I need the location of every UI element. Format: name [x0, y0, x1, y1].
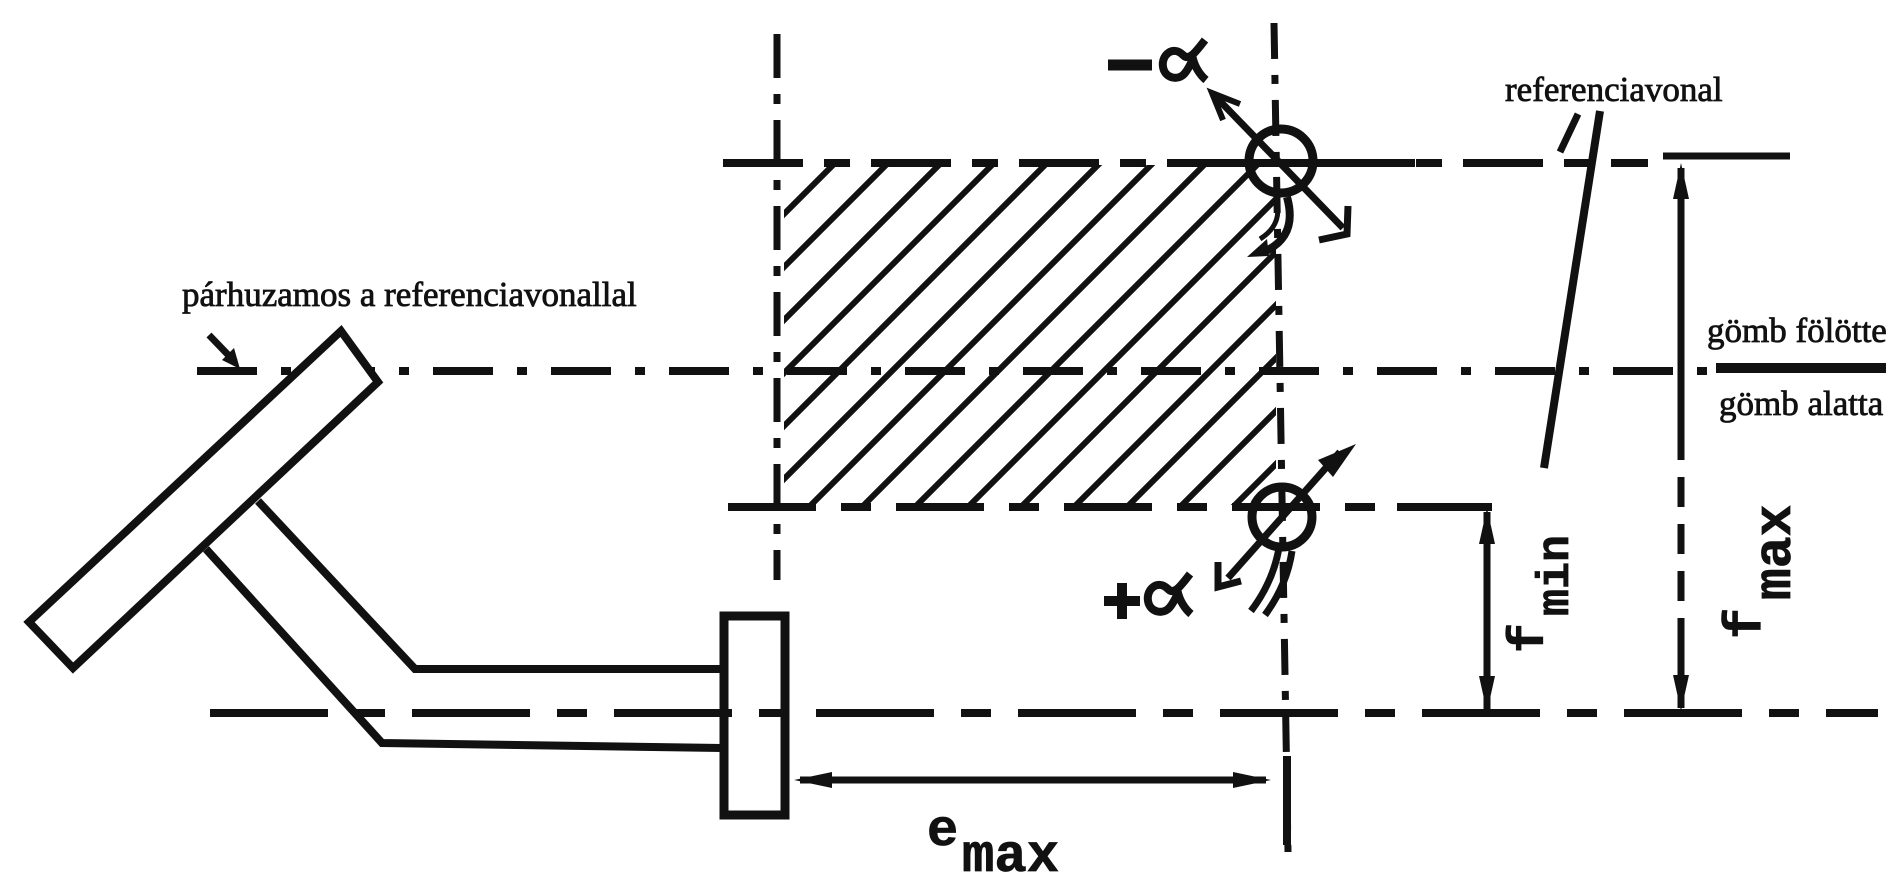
reference axis top chain line	[723, 159, 1648, 167]
centre line (middle horizontal dash-dot chain line)	[197, 367, 1714, 375]
svg-text:párhuzamos a referenciavonalla: párhuzamos a referenciavonallal	[182, 275, 637, 314]
f_min extension solid segment	[1397, 503, 1492, 511]
f_max top extension line	[1663, 153, 1790, 160]
right vertical dashed line	[1274, 23, 1288, 852]
lower ball symbol (circle)	[1252, 487, 1312, 547]
centre line thick right segment (between goemb foeloette / alatta)	[1716, 363, 1886, 373]
svg-text:f: f	[1502, 623, 1559, 653]
lower tolerance chain line	[728, 503, 1392, 511]
reference line (tilted)	[1544, 111, 1600, 468]
e_max dimension line	[800, 777, 1266, 784]
svg-text:gömb fölötte: gömb fölötte	[1707, 311, 1887, 350]
upper diagonal arrow shaft	[1216, 97, 1343, 228]
upper hook arrowhead (down-right)	[1319, 206, 1348, 240]
solid chain segment through upper ball symbol	[1240, 159, 1415, 167]
upper ball symbol (circle)	[1249, 129, 1313, 193]
left vertical dashed line	[774, 34, 781, 580]
lower arrowhead (up-right, solid)	[1318, 444, 1356, 477]
hub block	[724, 616, 785, 815]
steering column lower edge	[206, 549, 722, 748]
svg-text:max: max	[962, 827, 1059, 888]
f_min dimension line	[1484, 512, 1491, 709]
upper arrowhead (up-left, open)	[1212, 93, 1240, 120]
plus alpha label	[1104, 596, 1140, 606]
svg-text:min: min	[1531, 535, 1582, 616]
hatched tolerance zone	[420, 125, 1899, 525]
lower diagonal arrow shaft	[1228, 452, 1340, 578]
label: f min (rotated)	[1502, 535, 1582, 653]
upper curved tail (double stroke)	[1266, 197, 1290, 251]
lower curved tail (double stroke)	[1251, 548, 1279, 611]
svg-text:e: e	[927, 802, 958, 861]
bottom axis chain line	[210, 709, 1878, 717]
svg-text:f: f	[1717, 608, 1776, 639]
minus alpha label	[1108, 60, 1152, 71]
reference line leader flick	[1560, 114, 1578, 152]
svg-text:gömb alatta: gömb alatta	[1719, 384, 1884, 423]
svg-text:max: max	[1746, 505, 1806, 600]
steering wheel rim bar	[29, 331, 378, 668]
leader tick (parhuzamos... pointing to centre line)	[209, 335, 240, 369]
svg-text:referenciavonal: referenciavonal	[1505, 70, 1723, 109]
steering column upper edge	[258, 501, 722, 669]
label: f max (rotated)	[1717, 505, 1806, 639]
e_max end tick	[1283, 756, 1291, 845]
f_max dimension line	[1678, 168, 1685, 708]
lower arrowhead (down-left, open)	[1218, 562, 1241, 587]
